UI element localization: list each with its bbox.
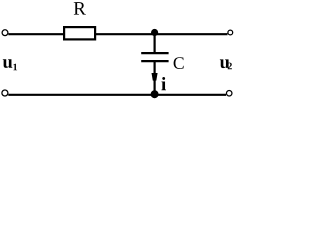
- label C: [174, 57, 184, 69]
- label u2: [220, 59, 230, 68]
- wire: capacitor top lead: [154, 33, 156, 54]
- capacitor C bottom plate: [141, 60, 168, 62]
- terminal bottom-right: [226, 90, 232, 96]
- node junction top: [151, 29, 158, 36]
- terminal top-left: [2, 30, 8, 36]
- capacitor C top plate: [141, 52, 168, 54]
- node junction bottom: [151, 90, 159, 98]
- terminal top-right: [228, 30, 233, 35]
- label u1: [3, 59, 13, 68]
- label i: [161, 77, 166, 90]
- wire: top rail, left segment: [8, 33, 64, 35]
- wire: top rail, right segment: [95, 33, 227, 35]
- label R: [74, 2, 86, 14]
- current arrow i (head, pointing down): [152, 73, 158, 81]
- wire: capacitor bottom lead: [154, 61, 156, 95]
- wire: bottom rail: [8, 94, 226, 96]
- terminal bottom-left: [2, 90, 8, 96]
- resistor R: [64, 27, 95, 39]
